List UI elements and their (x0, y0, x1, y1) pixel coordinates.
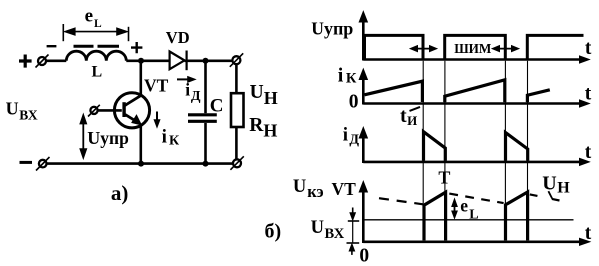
label i_K (waveform 2) (338, 64, 357, 86)
wire terminal to inductor (46, 59, 66, 62)
Uke pulse 2 (506, 192, 528, 240)
i_D arrow (177, 77, 195, 82)
minus polarity sign (input bottom-left) (20, 161, 33, 164)
svg-text:t: t (585, 38, 592, 59)
node junction dot (inductor/collector) (138, 58, 144, 64)
svg-text:U: U (6, 99, 19, 119)
svg-text:t: t (585, 223, 592, 244)
svg-text:U: U (311, 218, 324, 238)
label t (axis 3) (585, 142, 592, 163)
svg-text:t: t (585, 84, 592, 105)
junction dot capacitor top (203, 58, 209, 64)
svg-text:t: t (585, 142, 592, 163)
collector current ramp 1 (365, 81, 423, 102)
svg-text:ВХ: ВХ (19, 107, 38, 122)
label 0 (waveform 2) (349, 92, 359, 113)
grid line 1 (pulse1 fall) (422, 61, 424, 204)
svg-text:e: e (85, 6, 93, 27)
collector current ramp 3 (527, 90, 549, 103)
Uke pulse 1 (424, 192, 446, 240)
grid line 4 (pulse3 rise) (527, 61, 529, 192)
label 0 (waveform 4) (359, 245, 369, 266)
label t (axis 4) (585, 223, 592, 244)
svg-text:а): а) (111, 181, 128, 205)
svg-text:U: U (293, 177, 306, 197)
wire inductor to diode (126, 59, 168, 62)
svg-text:ШИМ: ШИМ (454, 41, 492, 56)
svg-text:Н: Н (263, 121, 277, 141)
label i_D (circuit) (185, 80, 201, 105)
svg-text:L: L (94, 18, 102, 30)
svg-text:Uупр: Uупр (311, 19, 353, 39)
label Uvx (circuit) (6, 99, 38, 123)
waveform 1 axis Uupr (359, 12, 589, 64)
svg-text:i: i (343, 124, 348, 145)
label i_K (circuit) (162, 126, 180, 148)
capacitor bottom junction dot (203, 161, 209, 167)
input terminal plus (36, 55, 49, 68)
label e_L (waveform 4) (460, 196, 478, 223)
waveform 1 pulse train (365, 35, 584, 59)
dashed envelope segment A (379, 198, 423, 204)
label t (axis 2) (585, 84, 592, 105)
grid line 2 (pulse2 rise) (444, 61, 446, 192)
inductor core bars (74, 45, 120, 48)
waveform 4 axis Uke (359, 181, 590, 245)
svg-text:VT: VT (144, 76, 169, 96)
bottom rail wire (46, 162, 233, 165)
inductor L coil (66, 51, 126, 61)
base wire (98, 109, 122, 112)
emitter junction dot (138, 161, 144, 167)
svg-text:К: К (346, 70, 357, 86)
dashed envelope segment C (530, 194, 561, 200)
base terminal (88, 105, 100, 117)
label Uvx (waveform 4) (311, 218, 345, 242)
grid line 3 (pulse2 fall) (504, 61, 506, 204)
collector wire (140, 61, 143, 96)
label UN (waveform 4) (542, 173, 570, 197)
load resistor RN (231, 64, 244, 159)
dashed envelope segment B (449, 194, 503, 204)
svg-text:L: L (469, 208, 478, 223)
svg-text:Д: Д (349, 132, 359, 147)
diode current triangle 1 (424, 132, 446, 161)
label Uupr (circuit) (87, 128, 129, 148)
PWM adjust arrow 1 (410, 46, 437, 52)
label b) (265, 221, 282, 243)
output terminal top (230, 53, 243, 67)
label UN (circuit) (250, 82, 278, 108)
i_K arrow (154, 112, 159, 128)
plus polarity above inductor (131, 42, 142, 53)
svg-text:R: R (249, 115, 264, 136)
Uupr double arrow (81, 115, 87, 157)
svg-text:T: T (438, 168, 450, 188)
output terminal bottom (230, 156, 243, 170)
label t_I with accent (400, 105, 417, 128)
svg-text:e: e (460, 196, 468, 216)
wire diode to top output terminal (185, 59, 233, 62)
capacitor C (188, 61, 217, 164)
label Uke VT (waveform 4) (293, 177, 356, 201)
Uvx level thin line (365, 219, 574, 221)
label T (period) (438, 168, 450, 188)
svg-text:И: И (407, 113, 417, 128)
label RN (circuit) (249, 115, 277, 141)
svg-text:б): б) (265, 221, 282, 243)
label e_L (85, 6, 102, 30)
Uvx dimension up arrow (347, 243, 360, 255)
PWM adjust arrow 2 (492, 46, 519, 52)
svg-text:VD: VD (166, 28, 190, 47)
e_L dimension arrow (63, 24, 128, 41)
label i_D (waveform 3) (343, 124, 360, 147)
label L (92, 64, 103, 81)
label t (axis 1) (585, 38, 592, 59)
diode current triangle 2 (506, 133, 528, 161)
svg-text:Uупр: Uупр (87, 128, 129, 148)
svg-text:0: 0 (359, 245, 369, 266)
plus polarity sign (input top-left) (19, 55, 32, 68)
svg-text:Д: Д (191, 89, 201, 104)
e_L dimension arrow (waveform 4) (452, 199, 457, 218)
svg-text:i: i (185, 80, 190, 100)
svg-text:0: 0 (349, 92, 359, 113)
waveform 2 axis i_K (359, 69, 589, 107)
svg-text:i: i (162, 126, 167, 147)
emitter wire (140, 125, 143, 164)
svg-text:U: U (250, 82, 264, 103)
Uvx dimension down arrow (348, 208, 359, 222)
input terminal minus (36, 157, 50, 171)
label VT (144, 76, 169, 96)
svg-text:L: L (92, 64, 103, 81)
svg-text:Н: Н (557, 180, 570, 197)
svg-text:ВХ: ВХ (325, 226, 345, 242)
svg-text:VT: VT (332, 179, 357, 199)
Uvx dimension connector (352, 221, 354, 243)
label ShIM (454, 41, 492, 56)
label C (210, 96, 224, 117)
label a) (111, 181, 128, 205)
diode VD (170, 51, 187, 71)
svg-text:К: К (169, 134, 180, 149)
waveform 3 axis i_D (359, 127, 589, 165)
label Uupr (waveform 1) (311, 19, 353, 39)
svg-text:кэ: кэ (307, 182, 323, 201)
label VD (166, 28, 190, 47)
U_N label leader stroke (548, 191, 552, 198)
minus polarity above inductor (47, 45, 57, 47)
svg-text:t: t (400, 105, 407, 127)
transistor VT (114, 93, 149, 128)
svg-text:Н: Н (264, 88, 278, 108)
svg-text:i: i (338, 64, 344, 86)
svg-text:U: U (542, 173, 556, 195)
svg-text:C: C (210, 96, 224, 117)
collector current ramp 2 (445, 80, 505, 103)
